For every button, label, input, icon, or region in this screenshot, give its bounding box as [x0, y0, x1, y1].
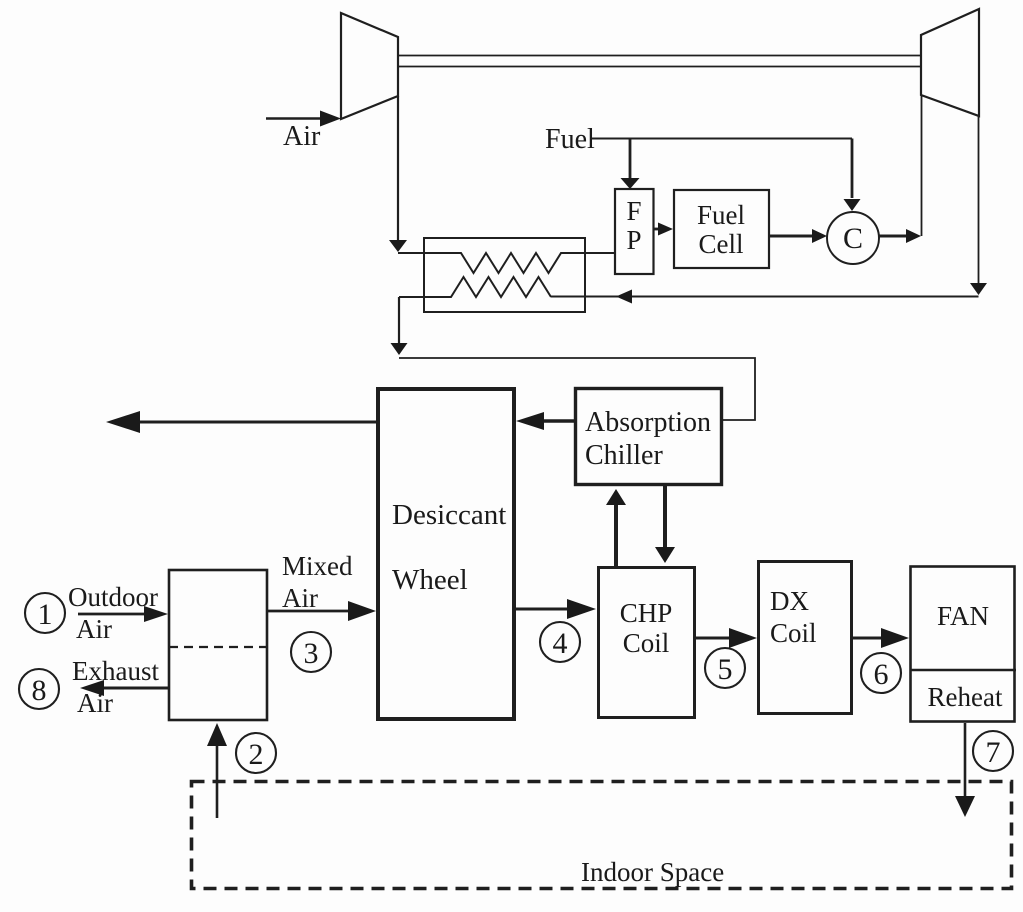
svg-text:Indoor Space: Indoor Space: [581, 857, 724, 887]
wire turbine inlet down: [921, 95, 923, 236]
exhaust air arrow: [102, 687, 168, 690]
air inlet arrow: [266, 117, 324, 120]
node 6 circle: [861, 653, 901, 693]
svg-text:Absorption: Absorption: [585, 407, 711, 438]
svg-text:8: 8: [32, 674, 47, 707]
svg-text:C: C: [843, 222, 863, 255]
HX bottom coil: [399, 277, 551, 297]
svg-text:Coil: Coil: [770, 618, 817, 648]
outdoor air arrow: [78, 613, 146, 616]
HX top coil: [398, 253, 615, 273]
mixing box damper dashed line: [169, 646, 267, 648]
Fuel Cell box U1: [674, 190, 769, 268]
svg-text:CHP: CHP: [620, 598, 673, 628]
svg-text:Exhaust: Exhaust: [72, 656, 159, 686]
node 1 circle: [25, 593, 65, 633]
svg-text:Mixed: Mixed: [282, 551, 353, 581]
svg-text:2: 2: [249, 738, 264, 771]
svg-text:P: P: [626, 225, 641, 255]
wire fuel branch to FP: [629, 139, 632, 179]
desiccant wheel box: [378, 389, 514, 719]
arrow FP to Fuel Cell: [654, 228, 661, 231]
absorption chiller box: [576, 389, 722, 485]
svg-text:FAN: FAN: [937, 601, 989, 631]
svg-text:Fuel: Fuel: [697, 200, 745, 230]
arrow C to turbine: [879, 235, 909, 238]
compressor (left trapezoid): [341, 13, 398, 119]
FP box: [615, 189, 654, 274]
arrow 7 wire supply to indoor space: [964, 723, 967, 798]
svg-text:Air: Air: [282, 583, 318, 613]
fuel supply wire: [592, 138, 852, 140]
wire compressor outlet down: [397, 96, 399, 242]
svg-text:5: 5: [718, 653, 733, 686]
node 5 circle: [705, 648, 745, 688]
node 7 circle: [973, 731, 1013, 771]
svg-text:Air: Air: [283, 121, 321, 152]
CHP coil box: [599, 568, 695, 718]
arrow 6 wire DX to FAN: [853, 637, 884, 640]
turbine (right trapezoid): [921, 9, 979, 116]
DX coil box: [759, 562, 852, 714]
svg-text:Cell: Cell: [699, 229, 744, 259]
arrow 4 wire DW to CHP: [516, 608, 570, 611]
arrow 5 wire CHP to DX: [696, 637, 732, 640]
combustor C circle: [827, 212, 879, 264]
svg-text:7: 7: [986, 736, 1001, 769]
wire turbine exhaust down: [978, 116, 980, 283]
mixed air arrow 3: [268, 610, 350, 613]
node 3 circle: [291, 632, 331, 672]
svg-text:6: 6: [874, 658, 889, 691]
arrow chiller to desiccant wheel: [542, 419, 574, 422]
exhaust out arrow (top left): [138, 421, 376, 424]
wire HX hot out down: [398, 297, 400, 344]
wire to absorption chiller: [399, 358, 755, 420]
wire fuel down to C: [851, 139, 854, 199]
arrow CHP to chiller (up): [614, 503, 618, 566]
svg-text:Chiller: Chiller: [585, 440, 663, 471]
svg-text:Desiccant: Desiccant: [392, 499, 506, 531]
arrow Fuel Cell to C: [769, 235, 815, 238]
svg-text:1: 1: [38, 598, 53, 631]
svg-text:Coil: Coil: [623, 628, 670, 658]
svg-text:Wheel: Wheel: [392, 564, 468, 596]
arrow chiller to CHP (down): [663, 486, 667, 549]
svg-text:F: F: [626, 196, 641, 226]
svg-text:Fuel: Fuel: [545, 124, 595, 155]
wire turbine exhaust to HX: [551, 296, 979, 298]
svg-text:Air: Air: [76, 614, 112, 644]
svg-text:3: 3: [304, 637, 319, 670]
node 2 circle: [236, 733, 276, 773]
svg-text:Reheat: Reheat: [928, 682, 1003, 712]
heat exchanger box: [424, 238, 585, 312]
mixing box: [169, 570, 267, 720]
node 8 circle: [19, 669, 59, 709]
node 4 circle: [540, 622, 580, 662]
indoor space dashed box: [192, 782, 1012, 889]
return air arrow 2: [216, 744, 219, 818]
svg-text:DX: DX: [770, 586, 809, 616]
svg-text:4: 4: [553, 627, 568, 660]
FAN / Reheat box: [911, 567, 1015, 722]
shaft: [398, 56, 921, 67]
